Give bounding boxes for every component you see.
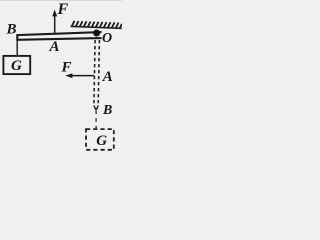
svg-text:G: G [96,133,107,149]
svg-text:A: A [102,69,113,85]
svg-text:F: F [61,59,72,75]
dashed beam (rotated position, hanging from O) left edge [94,40,95,106]
weight G box (solid) [3,56,30,74]
svg-text:A: A [49,39,60,55]
string from B to weight G [16,41,18,57]
ceiling hatching [72,21,122,29]
svg-text:B: B [102,103,112,118]
pivot O (hinge circle) [93,30,100,37]
force F arrow (up, at A) [54,15,56,34]
svg-text:B: B [6,22,17,38]
svg-text:F: F [57,1,69,18]
faint top border [0,0,122,2]
svg-text:O: O [102,31,112,46]
ceiling support line [71,26,122,28]
beam (solid position, B to O) [17,32,101,40]
force F arrow (left, at A on dashed beam) [71,75,94,77]
svg-text:G: G [11,58,22,74]
dashed beam end taper (B end) [94,106,96,111]
dashed beam right edge [98,40,99,106]
dashed weight G box [86,129,114,150]
dashed string to dashed G [95,111,97,129]
